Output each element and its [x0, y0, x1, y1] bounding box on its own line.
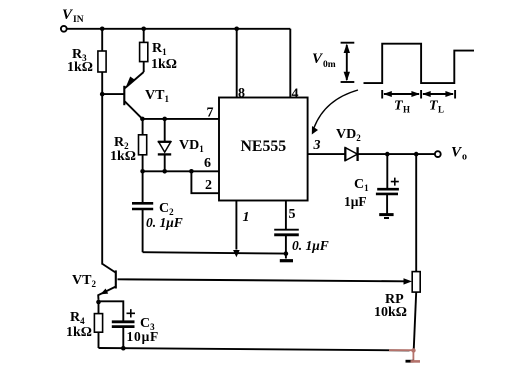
- wire: pin 1 drop with arrow: [233, 201, 240, 258]
- node: VD1 top junction: [162, 117, 167, 122]
- curved arrow from waveform to pin 3: [312, 90, 358, 135]
- IC U1 NE555: [219, 98, 308, 201]
- capacitor C2: [132, 171, 153, 252]
- terminal Vo: [435, 145, 467, 163]
- node: C3 bottom junction: [121, 346, 126, 351]
- resistor R2: [139, 119, 147, 171]
- svg-text:4: 4: [292, 86, 299, 101]
- node: pin3-RP junction: [414, 152, 419, 157]
- node: VD1 bottom junction: [162, 169, 167, 174]
- svg-text:IN: IN: [73, 15, 84, 25]
- TH dimension arrows: [383, 91, 420, 97]
- svg-text:0. 1μF: 0. 1μF: [146, 215, 183, 230]
- svg-text:5: 5: [289, 207, 296, 222]
- dimension ticks: [381, 90, 383, 99]
- svg-text:1μF: 1μF: [344, 194, 367, 209]
- diode VD2: [345, 147, 357, 161]
- svg-text:VT1: VT1: [145, 88, 169, 104]
- wire: pin 5 drop: [285, 201, 287, 230]
- wire: C2 bottom rail: [143, 252, 286, 253]
- node: rail-R3 junction: [100, 27, 105, 32]
- node: pin3-C1 junction: [385, 152, 390, 157]
- svg-text:H: H: [403, 105, 410, 115]
- diode VD1: [158, 119, 171, 171]
- resistor R4: [94, 314, 102, 348]
- svg-text:10kΩ: 10kΩ: [374, 305, 407, 320]
- svg-text:7: 7: [207, 105, 214, 120]
- ground: bottom right (red): [389, 348, 420, 361]
- svg-text:0. 1μF: 0. 1μF: [292, 238, 329, 253]
- wire: left vertical R3 to VT2 base: [101, 94, 103, 264]
- node: VT1 base junction: [100, 92, 105, 97]
- svg-text:VD1: VD1: [179, 138, 204, 154]
- wire: top supply rail: [67, 28, 290, 30]
- svg-text:1kΩ: 1kΩ: [110, 149, 136, 164]
- svg-text:8: 8: [238, 86, 245, 101]
- node: pin2 branch junction: [189, 169, 194, 174]
- svg-text:0m: 0m: [323, 60, 336, 70]
- svg-text:10μF: 10μF: [127, 329, 160, 344]
- svg-text:2: 2: [205, 178, 212, 193]
- svg-text:C1: C1: [354, 177, 369, 193]
- transistor VT1: [102, 72, 144, 119]
- svg-text:1: 1: [243, 210, 250, 225]
- wire: rail down to pin 4: [289, 29, 291, 98]
- square wave trace: [364, 44, 475, 83]
- wire: bottom rail: [99, 348, 410, 350]
- svg-text:3: 3: [313, 138, 321, 153]
- wiper arrow into RP: [118, 278, 413, 284]
- svg-text:NE555: NE555: [241, 138, 287, 155]
- svg-text:1kΩ: 1kΩ: [151, 57, 177, 72]
- ground: pin5 capacitor: [280, 259, 293, 262]
- svg-text:o: o: [462, 152, 467, 163]
- svg-text:R1: R1: [152, 41, 167, 57]
- resistor R3: [98, 29, 106, 94]
- wire: pin 7 line: [142, 118, 219, 120]
- waveform annotation: [312, 43, 474, 115]
- node: rail-pin8 junction: [234, 27, 239, 32]
- capacitor C1: [376, 154, 399, 213]
- svg-text:6: 6: [204, 156, 211, 171]
- capacitor C3: [112, 309, 135, 348]
- ground: C1: [379, 215, 393, 218]
- node: R2-C2 junction: [140, 169, 145, 174]
- svg-text:VD2: VD2: [336, 127, 361, 143]
- terminal VIN: [61, 7, 84, 32]
- node: VT2 emitter junction: [96, 300, 101, 305]
- svg-text:L: L: [438, 105, 444, 115]
- potentiometer RP: [412, 154, 420, 350]
- wire: pin 3 output line: [308, 153, 435, 155]
- capacitor C4 pin5 0.1uF: [274, 230, 299, 259]
- wire: pin 6 line: [143, 170, 219, 172]
- svg-text:R4: R4: [70, 310, 85, 326]
- node: rail-R1 junction: [141, 27, 146, 32]
- V0m measure arrow: [341, 43, 355, 82]
- resistor R1: [140, 29, 148, 72]
- wire: pin 2 branch: [191, 171, 219, 193]
- svg-text:1kΩ: 1kΩ: [66, 325, 92, 340]
- transistor VT2: [98, 264, 116, 314]
- node: collector-R2 junction: [140, 117, 145, 122]
- svg-text:1kΩ: 1kΩ: [67, 60, 93, 75]
- TL dimension arrows: [422, 91, 454, 97]
- node: C2/C5 rail junction: [284, 251, 289, 256]
- wire: pin 8 drop: [236, 29, 238, 98]
- wire: emitter to C3 top: [99, 301, 124, 321]
- svg-text:VT2: VT2: [72, 273, 96, 289]
